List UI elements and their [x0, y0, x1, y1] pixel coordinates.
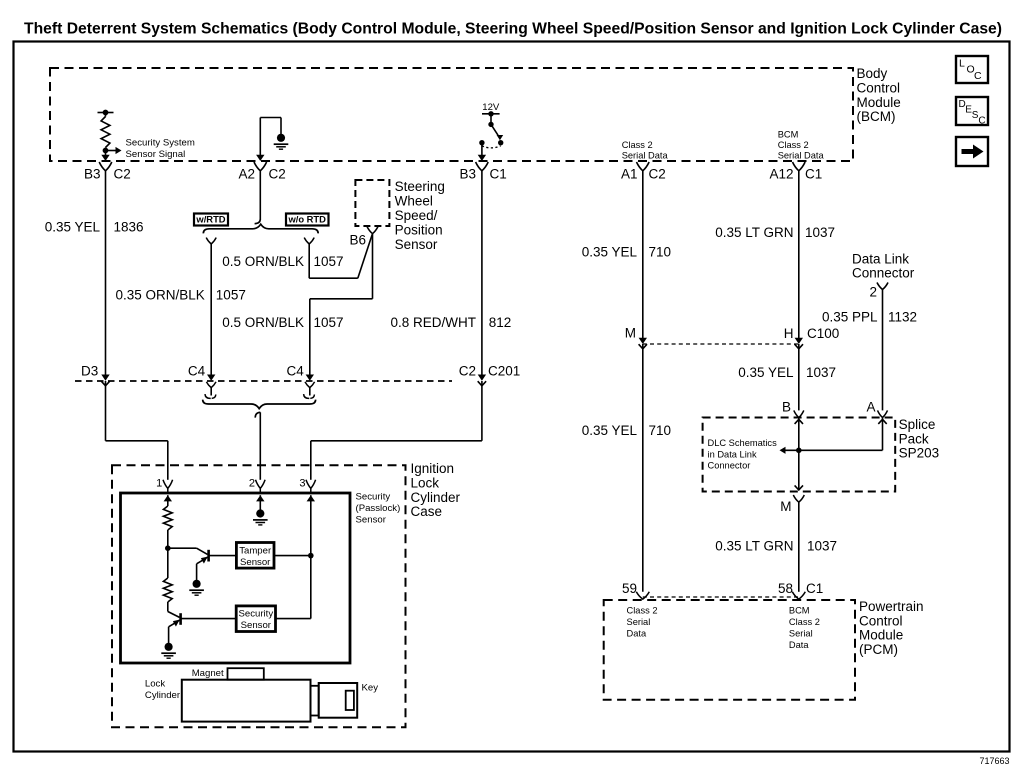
connector pin 1 — [156, 478, 172, 494]
ground at Q2 emitter — [161, 643, 176, 659]
svg-text:M: M — [625, 326, 636, 341]
figure number 717663 — [979, 756, 1009, 766]
connector pin A12/C1 — [769, 162, 822, 182]
PCM module dashed box — [604, 600, 855, 700]
wire merged feed down to pin 2 — [255, 412, 260, 480]
svg-text:0.35 ORN/BLK: 0.35 ORN/BLK — [116, 288, 205, 303]
BCM module label — [857, 66, 901, 124]
ignition switch — [479, 114, 503, 148]
svg-text:BCM: BCM — [778, 130, 799, 140]
junction node base Q1 — [165, 545, 171, 551]
splice jog wire A to B with arrow — [780, 418, 887, 454]
svg-text:1057: 1057 — [216, 288, 246, 303]
label 0.5 ORN/BLK 1057 lower — [222, 315, 343, 330]
C201 pass-through at C2 — [478, 381, 486, 386]
svg-text:1057: 1057 — [314, 315, 344, 330]
svg-text:Control: Control — [857, 80, 901, 95]
svg-text:Data: Data — [789, 640, 809, 650]
svg-text:C1: C1 — [490, 167, 507, 182]
svg-text:Steering: Steering — [395, 179, 445, 194]
wire Tamper Sensor to pin 3 node — [274, 553, 314, 559]
svg-text:0.5 ORN/BLK: 0.5 ORN/BLK — [222, 315, 304, 330]
wire 0.8 RED/WHT 812 — [478, 171, 486, 381]
svg-text:1: 1 — [156, 478, 162, 490]
internal ground at pin 2 — [253, 495, 268, 525]
svg-text:Sensor Signal: Sensor Signal — [126, 149, 186, 160]
label C4 (w/o RTD) — [287, 364, 305, 379]
svg-text:Class 2: Class 2 — [622, 140, 653, 150]
svg-text:Security: Security — [356, 492, 391, 503]
ground at Q1 emitter — [189, 580, 204, 596]
svg-text:1037: 1037 — [805, 225, 835, 240]
svg-text:Sensor: Sensor — [241, 620, 272, 631]
legend DESC box — [956, 97, 988, 127]
branch tick w/o RTD — [304, 238, 314, 244]
wire Q2 collector to Security Sensor — [181, 618, 237, 620]
wire Q1 collector to Tamper Sensor — [209, 555, 237, 557]
svg-text:H: H — [784, 326, 794, 341]
Tamper Sensor box — [236, 543, 274, 569]
connector pin B3/C1 — [459, 162, 506, 182]
svg-text:Serial Data: Serial Data — [622, 151, 669, 161]
svg-text:w/RTD: w/RTD — [195, 214, 225, 225]
svg-text:(Passlock): (Passlock) — [356, 503, 401, 514]
wire D3 jog to pin 1 — [106, 381, 168, 480]
Steering Wheel Speed/Position Sensor label — [395, 179, 445, 252]
in-line connector C201 dashed line — [75, 380, 452, 382]
svg-text:Cylinder: Cylinder — [145, 690, 181, 701]
Security (Passlock) Sensor label — [356, 492, 401, 526]
svg-text:0.8 RED/WHT: 0.8 RED/WHT — [390, 315, 476, 330]
svg-text:in Data Link: in Data Link — [708, 449, 757, 459]
svg-text:Security System: Security System — [126, 137, 195, 148]
connector pin 2 of DLC — [869, 283, 888, 300]
resistor R1 internal — [163, 495, 172, 548]
wire A2 down to option brace — [255, 171, 261, 224]
svg-text:710: 710 — [649, 245, 672, 260]
12V feed label — [482, 102, 500, 113]
svg-text:2: 2 — [869, 285, 877, 300]
label BCM Class 2 Serial Data in PCM — [789, 606, 820, 651]
svg-text:Pack: Pack — [899, 431, 929, 446]
svg-text:0.35 YEL: 0.35 YEL — [582, 423, 638, 438]
label Magnet — [192, 668, 224, 679]
wire 0.35 YEL 710 upper — [639, 171, 647, 345]
svg-text:Sensor: Sensor — [395, 237, 438, 252]
svg-text:A2: A2 — [238, 167, 255, 182]
key slot — [346, 691, 354, 710]
legend forward-arrow box — [956, 137, 988, 166]
svg-text:0.35 YEL: 0.35 YEL — [738, 365, 794, 380]
wire 0.35 PPL 1132 — [878, 290, 888, 418]
svg-text:1057: 1057 — [314, 254, 344, 269]
svg-text:812: 812 — [489, 315, 512, 330]
label 0.35 PPL 1132 — [822, 310, 917, 325]
svg-text:C4: C4 — [188, 364, 206, 379]
pin 3 entry arrow — [307, 495, 315, 501]
transistor Q1 — [168, 548, 209, 580]
Splice Pack SP203 dashed box — [703, 418, 896, 492]
svg-text:0.35 LT GRN: 0.35 LT GRN — [715, 225, 793, 240]
svg-text:59: 59 — [622, 581, 637, 596]
BCM module dashed box — [50, 68, 853, 161]
svg-text:C100: C100 — [807, 326, 839, 341]
svg-text:Serial: Serial — [627, 617, 651, 627]
svg-text:SP203: SP203 — [899, 446, 940, 461]
transistor Q2 — [168, 612, 181, 644]
connector pin A2/C2 — [238, 162, 285, 182]
svg-text:Ignition: Ignition — [411, 461, 455, 476]
wire 0.35 YEL 710 lower — [642, 344, 644, 592]
label Key — [362, 683, 379, 694]
label Class 2 Serial Data in PCM — [627, 606, 658, 639]
svg-text:Splice: Splice — [899, 417, 936, 432]
wire ground to pin A2 with arrow — [256, 118, 264, 162]
svg-text:DLC Schematics: DLC Schematics — [708, 438, 778, 448]
svg-text:Powertrain: Powertrain — [859, 599, 924, 614]
label 0.35 YEL 1037 — [738, 365, 836, 380]
svg-text:Serial: Serial — [789, 629, 813, 639]
label H C100 — [784, 326, 840, 341]
12V feed bar — [482, 111, 500, 116]
key head box — [319, 683, 358, 718]
Ignition Lock Cylinder Case dashed box — [112, 465, 406, 727]
svg-text:Tamper: Tamper — [239, 545, 272, 556]
pin 1 entry arrow — [164, 495, 172, 501]
label 0.35 YEL 1836 — [45, 220, 144, 235]
wire 0.35 LT GRN 1037 upper — [795, 171, 803, 345]
signal tap arrow — [106, 147, 122, 154]
label C2 C201 — [459, 364, 521, 379]
svg-text:C1: C1 — [805, 167, 822, 182]
svg-text:(PCM): (PCM) — [859, 642, 898, 657]
label 0.35 YEL 710 — [582, 245, 671, 260]
label 0.8 RED/WHT 812 — [390, 315, 511, 330]
PCM pin tie dashed line — [643, 596, 799, 598]
label B at splice — [782, 400, 791, 415]
connector pin 59 — [622, 581, 649, 599]
wire B6 down jog to w/o RTD branch — [306, 234, 373, 381]
svg-text:Magnet: Magnet — [192, 668, 224, 679]
svg-text:C1: C1 — [806, 581, 823, 596]
Security Sensor box — [236, 606, 275, 632]
label BCM Class 2 Serial Data at A12 — [778, 130, 825, 161]
svg-text:3: 3 — [299, 478, 305, 490]
label Class 2 Serial Data at A1 — [622, 140, 669, 161]
svg-text:C2: C2 — [114, 167, 131, 182]
svg-text:Control: Control — [859, 613, 903, 628]
wire Security Sensor to pin 3 wire — [276, 618, 311, 620]
svg-text:58: 58 — [778, 581, 793, 596]
svg-text:Speed/: Speed/ — [395, 208, 438, 223]
label D3 — [81, 364, 98, 379]
option label box w/o RTD — [286, 214, 329, 226]
Splice Pack SP203 label — [899, 417, 940, 461]
svg-text:Security: Security — [238, 609, 273, 620]
svg-text:B: B — [782, 400, 791, 415]
svg-text:D3: D3 — [81, 364, 98, 379]
svg-text:C: C — [974, 70, 982, 82]
svg-text:1132: 1132 — [888, 310, 917, 325]
svg-text:Theft Deterrent System Schemat: Theft Deterrent System Schematics (Body … — [24, 21, 1002, 38]
svg-text:BCM: BCM — [789, 606, 810, 616]
pin 2 entry arrow — [256, 495, 264, 501]
svg-text:0.5 ORN/BLK: 0.5 ORN/BLK — [222, 254, 304, 269]
merge brace to Passlock sensor feed — [203, 400, 316, 409]
label Data Link Connector — [852, 251, 915, 280]
resistor R2 internal — [163, 548, 172, 611]
svg-text:L: L — [959, 58, 965, 70]
C201 socket at C4 w/RTD — [205, 382, 216, 399]
option brace w/RTD vs w/o RTD — [203, 224, 318, 233]
resistor R-sense top tick — [98, 110, 114, 116]
label Security System Sensor Signal — [126, 137, 195, 160]
lock cylinder box — [182, 680, 311, 722]
option label box w/RTD — [194, 214, 228, 226]
resistor R-sense (Security System Sensor Signal) — [101, 113, 110, 154]
Steering Wheel Speed/Position Sensor dashed box — [355, 180, 389, 226]
magnet box — [228, 668, 264, 680]
svg-text:Key: Key — [362, 683, 379, 694]
title caption — [24, 21, 1002, 38]
C100 pass-through at H — [795, 344, 803, 349]
connector pin B3/C2 — [84, 162, 131, 182]
label C4 (w/RTD) — [188, 364, 206, 379]
svg-text:1037: 1037 — [806, 365, 836, 380]
svg-text:Body: Body — [857, 66, 888, 81]
svg-text:Case: Case — [411, 504, 443, 519]
svg-text:Sensor: Sensor — [240, 557, 271, 568]
svg-text:Module: Module — [859, 628, 903, 643]
key shank box — [311, 686, 319, 716]
svg-text:M: M — [780, 499, 791, 514]
svg-text:Cylinder: Cylinder — [411, 490, 461, 505]
svg-text:Connector: Connector — [852, 266, 915, 281]
svg-text:A: A — [866, 400, 875, 415]
label A at splice — [866, 400, 875, 415]
wire C2 jog to pin 3 — [311, 381, 482, 480]
svg-text:A1: A1 — [621, 167, 638, 182]
label 0.35 LT GRN 1037 lower — [715, 539, 837, 554]
svg-text:Wheel: Wheel — [395, 194, 433, 209]
connector pin A1/C2 — [621, 162, 666, 182]
wire R-sense to pin B3 with arrow — [101, 151, 109, 162]
svg-text:0.35 YEL: 0.35 YEL — [582, 245, 638, 260]
label 0.35 ORN/BLK 1057 — [116, 288, 246, 303]
C100 pass-through at M — [639, 344, 647, 349]
svg-text:0.35 PPL: 0.35 PPL — [822, 310, 878, 325]
svg-text:710: 710 — [649, 423, 672, 438]
svg-text:1037: 1037 — [807, 539, 837, 554]
PCM module label — [859, 599, 924, 657]
svg-text:B3: B3 — [459, 167, 476, 182]
wire switch to pin B3 with arrow — [478, 143, 486, 161]
svg-text:B6: B6 — [349, 233, 366, 248]
svg-text:Class 2: Class 2 — [778, 140, 809, 150]
connector pin 3 — [299, 478, 315, 494]
svg-text:2: 2 — [249, 478, 255, 490]
svg-text:Data Link: Data Link — [852, 251, 909, 266]
svg-text:Lock: Lock — [145, 679, 165, 690]
wire 0.35 ORN/BLK 1057 (w/RTD branch) — [207, 244, 215, 381]
label DLC Schematics in Data Link Connector — [708, 438, 778, 471]
C201 pass-through at D3 — [101, 381, 109, 386]
svg-text:Sensor: Sensor — [356, 515, 387, 526]
svg-text:Serial Data: Serial Data — [778, 151, 825, 161]
label Lock Cylinder — [145, 679, 181, 702]
svg-text:Class 2: Class 2 — [627, 606, 658, 616]
svg-text:Module: Module — [857, 95, 901, 110]
svg-text:B3: B3 — [84, 167, 101, 182]
svg-text:Data: Data — [627, 629, 647, 639]
svg-text:C2: C2 — [269, 167, 286, 182]
wire pin 3 vertical — [310, 495, 312, 618]
svg-text:Class 2: Class 2 — [789, 617, 820, 627]
svg-text:A12: A12 — [769, 167, 793, 182]
svg-text:0.35 LT GRN: 0.35 LT GRN — [715, 539, 793, 554]
wire 0.35 YEL 1037 — [794, 344, 804, 418]
svg-text:717663: 717663 — [979, 756, 1009, 766]
connector pin 58/C1 — [778, 581, 823, 599]
svg-text:Position: Position — [395, 222, 443, 237]
connector M below splice — [780, 495, 804, 514]
wire B through splice box — [795, 418, 803, 491]
label 0.35 YEL 710 lower — [582, 423, 671, 438]
svg-text:C: C — [978, 116, 985, 127]
svg-text:0.35 YEL: 0.35 YEL — [45, 220, 101, 235]
svg-text:(BCM): (BCM) — [857, 109, 896, 124]
label 0.35 LT GRN 1037 upper — [715, 225, 835, 240]
svg-text:C201: C201 — [488, 364, 520, 379]
in-line connector C100 dashed line — [643, 343, 799, 345]
wire 0.35 LT GRN 1037 lower — [798, 502, 800, 592]
ground in BCM at A2 — [260, 118, 288, 150]
label 0.5 ORN/BLK 1057 upper — [222, 254, 343, 269]
label M at C100 — [625, 326, 636, 341]
svg-text:w/o RTD: w/o RTD — [287, 214, 326, 225]
svg-text:Connector: Connector — [708, 461, 751, 471]
branch tick w/RTD — [206, 238, 216, 244]
C201 socket at C4 w/o RTD — [304, 382, 315, 399]
connector pin B6 — [349, 227, 378, 248]
wire 0.35 YEL 1836 — [101, 171, 109, 381]
svg-text:1836: 1836 — [114, 220, 144, 235]
Ignition Lock Cylinder Case label — [411, 461, 461, 519]
wire 0.5 ORN/BLK 1057 upper (to B6) — [309, 234, 372, 278]
svg-text:Lock: Lock — [411, 475, 440, 490]
svg-text:C2: C2 — [649, 167, 666, 182]
legend LOC box — [956, 56, 988, 83]
svg-text:C4: C4 — [287, 364, 305, 379]
Security (Passlock) Sensor box — [121, 493, 351, 663]
svg-text:C2: C2 — [459, 364, 476, 379]
connector pin 2 — [249, 478, 265, 494]
